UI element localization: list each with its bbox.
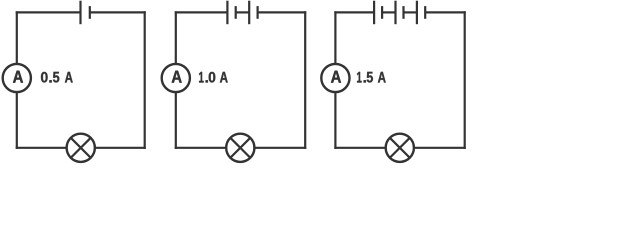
wire: circuit 2 left lower segment [175, 93, 177, 149]
wire: circuit 1 left lower segment [16, 93, 18, 149]
wire: circuit 2 inter-cell link [236, 11, 250, 13]
cell B3b short plate (negative) [402, 6, 404, 19]
wire: circuit 3 left lower segment [334, 93, 336, 149]
wire: circuit 2 top right segment [258, 11, 307, 13]
wire: circuit 3 inter-cell link 1 [382, 11, 395, 13]
cell B1 short plate (negative) [89, 6, 91, 19]
wire: circuit 1 right side [144, 11, 146, 149]
cell B2a long plate (positive) [226, 1, 228, 25]
wire: circuit 1 bottom right segment [95, 147, 146, 149]
wire: circuit 1 left upper segment [16, 11, 18, 63]
ammeter A1 [3, 64, 31, 92]
wire: circuit 1 top left segment [16, 11, 81, 13]
wire: circuit 2 bottom right segment [255, 147, 306, 149]
cell B3c short plate (negative) [424, 6, 426, 19]
wire: circuit 3 top right segment [425, 11, 466, 13]
ammeter A3 [321, 64, 349, 92]
wire: circuit 3 bottom right segment [414, 147, 466, 149]
wire: circuit 1 bottom left segment [16, 147, 67, 149]
wire: circuit 3 bottom left segment [334, 147, 385, 149]
lamp L2 [226, 134, 254, 162]
wire: circuit 3 inter-cell link 2 [404, 11, 417, 13]
cell B2a short plate (negative) [235, 6, 237, 19]
value label 1.5 A [357, 72, 386, 83]
cell B2b short plate (negative) [257, 6, 259, 19]
cell B3c long plate (positive) [416, 1, 418, 25]
cell B3b long plate (positive) [394, 1, 396, 25]
lamp L3 [386, 134, 414, 162]
wire: circuit 2 bottom left segment [175, 147, 226, 149]
wire: circuit 2 left upper segment [175, 11, 177, 63]
wire: circuit 1 top right segment [90, 11, 146, 13]
cell B1 long plate (positive) [79, 1, 81, 25]
ammeter A2 [162, 64, 190, 92]
cell B3a long plate (positive) [373, 1, 375, 25]
wire: circuit 3 left upper segment [334, 11, 336, 63]
lamp L1 [67, 134, 95, 162]
cell B2b long plate (positive) [248, 1, 250, 25]
cell B3a short plate (negative) [381, 6, 383, 19]
wire: circuit 3 top left segment [334, 11, 374, 13]
value label 1.0 A [199, 72, 228, 83]
value label 0.5 A [41, 72, 73, 83]
wire: circuit 2 top left segment [175, 11, 228, 13]
wire: circuit 3 right side [464, 11, 466, 149]
wire: circuit 2 right side [304, 11, 306, 149]
